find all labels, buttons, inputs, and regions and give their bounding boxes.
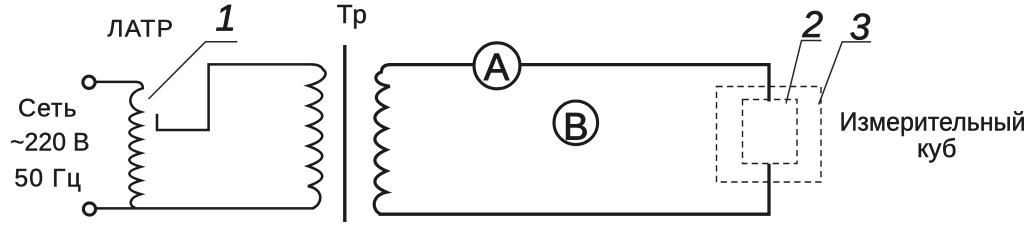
svg-text:2: 2 bbox=[802, 4, 824, 45]
svg-text:куб: куб bbox=[917, 133, 957, 163]
svg-text:Сеть: Сеть bbox=[18, 95, 77, 123]
svg-text:В: В bbox=[563, 106, 588, 148]
svg-text:1: 1 bbox=[215, 0, 236, 38]
svg-text:3: 3 bbox=[850, 6, 871, 47]
svg-text:А: А bbox=[484, 47, 510, 89]
svg-text:50 Гц: 50 Гц bbox=[14, 166, 81, 193]
svg-text:~220 В: ~220 В bbox=[10, 130, 90, 157]
svg-text:ЛАТР: ЛАТР bbox=[107, 16, 173, 43]
svg-text:Тр: Тр bbox=[337, 0, 367, 29]
